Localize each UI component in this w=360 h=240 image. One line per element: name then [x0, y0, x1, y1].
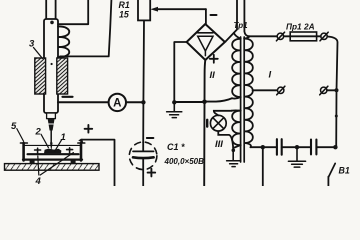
- wire: winding I top to connector: [250, 35, 277, 37]
- needle electrode: [50, 131, 52, 143]
- svg-text:Пр1 2А: Пр1 2А: [286, 22, 315, 32]
- svg-text:2: 2: [35, 127, 42, 138]
- ground G1: [173, 102, 175, 111]
- wire: R1 bottom to C1: [142, 20, 145, 142]
- electrode holder tube: [44, 19, 58, 113]
- connector pin X1a: [277, 33, 283, 39]
- svg-text:1: 1: [61, 132, 66, 143]
- svg-text:5: 5: [11, 121, 17, 132]
- terminal dot on tube: [50, 21, 54, 25]
- C1 plus label: [148, 169, 156, 177]
- callout 2 leader: [41, 134, 48, 147]
- callout 1 leader: [55, 140, 62, 152]
- solenoid yoke right (hatched): [57, 58, 68, 94]
- R1 wiper arrow: [157, 8, 206, 10]
- node at filter ground: [295, 145, 299, 149]
- callout 4 leaders: [38, 153, 74, 175]
- small mark on tube: [51, 63, 53, 65]
- capacitor C3: [311, 140, 316, 155]
- needle tip: [50, 143, 53, 152]
- wire: C3 to mains node: [316, 146, 335, 148]
- callout 3 leader: [34, 48, 43, 59]
- wire: fuse to pin: [317, 35, 321, 37]
- base slab (hatched): [5, 164, 100, 171]
- capacitor C2: [277, 139, 282, 155]
- node at winding I bottom: [261, 145, 265, 149]
- solenoid coil L1 on tube: [58, 26, 69, 57]
- winding III (left lower): [232, 111, 241, 145]
- wire: bridge left vertex down: [174, 42, 186, 102]
- ammeter A: [109, 94, 126, 111]
- solenoid yoke left (hatched): [35, 58, 46, 94]
- ground G2: [232, 148, 234, 160]
- bath right wall: [80, 143, 83, 160]
- fuse Pr1: [290, 35, 316, 37]
- electrode rod (top stem): [46, 0, 55, 19]
- svg-text:II: II: [210, 70, 216, 81]
- switch B1 lead: [327, 177, 329, 186]
- wire: pin down right side: [327, 37, 337, 148]
- node on plus rail: [202, 100, 207, 105]
- clamp bolt right: [67, 148, 73, 153]
- winding I top lead to fuse wire: [244, 36, 249, 38]
- winding II leads: [232, 33, 241, 99]
- wire: lamp top to winding III top: [214, 111, 232, 116]
- svg-text:R1: R1: [119, 0, 130, 10]
- connector pin X2b: [321, 87, 327, 93]
- wire: rail to winding II bottom: [205, 98, 233, 101]
- node at switch: [333, 145, 337, 149]
- bath bottom: [23, 159, 82, 161]
- lamp HL1: [210, 115, 226, 131]
- callout 5 leader: [17, 129, 24, 142]
- node at winding III ground: [232, 149, 236, 153]
- C1 minus label: [147, 137, 154, 139]
- winding II (left upper): [232, 39, 241, 97]
- lamp contact tick: [206, 120, 208, 127]
- connector pin X1b: [321, 33, 327, 39]
- clamp bolt left: [35, 148, 41, 153]
- workpiece (dark): [44, 149, 61, 154]
- svg-text:С1 *: С1 *: [167, 142, 185, 152]
- wire: bridge plus down to bottom edge: [204, 60, 205, 186]
- resistor R1: [138, 0, 150, 20]
- minus label wire (cathode): [63, 96, 73, 98]
- bath left wall: [22, 143, 25, 160]
- svg-text:III: III: [215, 139, 223, 150]
- bath plus terminal: [78, 139, 83, 144]
- C1 wire bottom: [142, 159, 144, 186]
- capacitor C1 wire top: [142, 142, 144, 151]
- wire: primary riser A to bridge right vertex: [225, 0, 237, 42]
- wire: bath to bottom edge: [81, 140, 115, 186]
- node at chassis ground: [172, 100, 176, 104]
- chuck collar: [47, 113, 56, 119]
- ground G3: [296, 147, 298, 160]
- plus label at bath: [85, 125, 93, 133]
- wire: winding I tap to connector: [253, 89, 278, 91]
- collet (dark taper): [48, 119, 55, 131]
- nub on riser: [335, 115, 338, 118]
- winding I (right): [244, 39, 253, 148]
- svg-text:A: A: [113, 98, 121, 110]
- bath foot left: [30, 160, 35, 163]
- wire: ammeter to node: [126, 101, 143, 103]
- wire: tube to ammeter: [58, 101, 109, 103]
- bridge rectifier VD1 (diamond): [187, 24, 225, 60]
- winding III leads: [232, 110, 241, 148]
- C1 dashed circle: [129, 142, 157, 170]
- capacitor C1 plates: [133, 150, 154, 152]
- diode inside bridge: [198, 32, 213, 34]
- wire: pin to mains riser: [327, 89, 336, 91]
- wire: ground node to lamp rail: [174, 101, 204, 103]
- wire: winding I bottom rail: [251, 146, 277, 148]
- wire: node down to bottom edge: [262, 147, 264, 186]
- node on mains riser: [335, 88, 339, 92]
- wire: primary riser B to fuse line: [244, 0, 249, 36]
- wire: pin to fuse: [284, 35, 290, 37]
- wire: lamp bottom to winding III: [218, 131, 233, 148]
- minus label at bridge: [211, 14, 217, 16]
- svg-text:3: 3: [29, 39, 35, 50]
- svg-text:400,0×50В: 400,0×50В: [164, 157, 205, 166]
- node: R1/C1 junction: [141, 100, 145, 104]
- connector pin X2a: [278, 87, 284, 93]
- bath rim line: [25, 144, 81, 146]
- svg-text:Тр1: Тр1: [234, 21, 249, 30]
- plus label at bridge: [210, 55, 218, 63]
- transformer Tp1 core: [241, 37, 245, 162]
- svg-text:I: I: [269, 70, 272, 81]
- wire: coil bottom to R1 branch: [60, 0, 111, 56]
- wire: arrow to bridge top: [205, 9, 207, 24]
- svg-text:4: 4: [35, 176, 42, 186]
- wire: C2 to ground node: [282, 146, 311, 148]
- wire: tube terminal to top edge: [58, 0, 88, 24]
- workpiece plate: [28, 153, 79, 155]
- switch B1 blade: [329, 163, 336, 176]
- svg-text:В1: В1: [339, 166, 350, 176]
- bath foot right: [71, 160, 76, 163]
- svg-text:15: 15: [119, 10, 129, 20]
